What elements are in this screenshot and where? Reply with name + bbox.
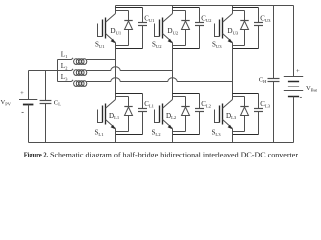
wire: leg 3 midpoint vertical (phase node) — [232, 43, 234, 100]
wire: inner bottom bar (diode anode) of S_L3 cell — [233, 131, 245, 133]
wire: leg 1 emitter drop to bottom rail — [115, 129, 117, 143]
svg-text:+: + — [296, 68, 300, 75]
inductor L1 — [58, 58, 87, 64]
capacitor C_L2 — [195, 94, 204, 135]
wire: outer bottom bar (emitter/cap) of S_L2 cell — [173, 134, 200, 136]
diode D_U1 — [124, 11, 132, 46]
transistor S_U3 (IGBT) — [215, 14, 233, 44]
transistor S_U1 (IGBT) — [98, 14, 116, 44]
capacitor C_L1 — [138, 94, 147, 135]
wire: outer bottom bar (emitter/cap) of S_U2 cell — [173, 48, 200, 50]
inductor L3 — [58, 80, 87, 86]
transistor S_L1 (IGBT) — [98, 100, 116, 130]
wire: L2 line to leg 2 midpoint, jumping leg 1 — [87, 67, 173, 71]
wire: inner bar (diode side) of S_U3 cell — [233, 10, 245, 12]
diode D_L1 — [124, 97, 132, 132]
transistor S_L2 (IGBT) — [155, 100, 173, 130]
diode D_L3 — [240, 97, 248, 132]
wire: outer bottom bar (emitter/cap) of S_L1 cell — [116, 134, 143, 136]
wire: L1 line to leg 1 midpoint — [87, 59, 116, 61]
top DC bus rail (positive) — [116, 5, 294, 7]
capacitor C_U1 — [138, 8, 147, 49]
svg-text:-: - — [21, 108, 24, 117]
wire: inner bar (diode side) of S_L3 cell — [233, 96, 245, 98]
wire: inner bar (diode side) of S_U1 cell — [116, 10, 129, 12]
diode D_L2 — [181, 97, 189, 132]
wire: inner bottom bar (diode anode) of S_U1 cell — [116, 45, 129, 47]
wire: V_PV node across to bus (start of L2 line) — [29, 70, 72, 72]
wire: inner bar (diode side) of S_L2 cell — [173, 96, 186, 98]
wire: outer bottom bar (emitter/cap) of S_U3 cell — [233, 48, 259, 50]
wire: outer bar (cap side) of S_L1 cell — [116, 93, 143, 95]
voltage source V_PV — [19, 71, 37, 143]
capacitor C_U3 — [254, 8, 263, 49]
wire: inner bottom bar (diode anode) of S_L2 cell — [173, 131, 186, 133]
wire: L3 line to leg 3 midpoint, jumping legs 1 and 2 — [87, 78, 233, 82]
bottom DC bus rail (negative) — [29, 142, 294, 144]
wire: outer bar (cap side) of S_L2 cell — [173, 93, 200, 95]
capacitor C_H — [268, 6, 280, 143]
wire: inner bottom bar (diode anode) of S_L1 cell — [116, 131, 129, 133]
svg-text:-: - — [299, 92, 302, 101]
transistor S_L3 (IGBT) — [215, 100, 233, 130]
wire: leg 2 collector drop from top rail — [172, 6, 174, 14]
wire: inner bar (diode side) of S_L1 cell — [116, 96, 129, 98]
capacitor C_L3 — [254, 94, 263, 135]
wire: leg 2 midpoint vertical (phase node) — [172, 43, 174, 100]
capacitor C_L — [40, 71, 52, 143]
wire: leg 3 collector drop from top rail — [232, 6, 234, 14]
wire: outer bar (cap side) of S_U2 cell — [173, 7, 200, 9]
svg-text:Figure 2.: Figure 2. — [24, 151, 49, 157]
wire: outer bottom bar (emitter/cap) of S_L3 cell — [233, 134, 259, 136]
wire: left bus vertical joining L1/L2/L3 branches — [57, 60, 59, 82]
wire: leg 3 emitter drop to bottom rail — [232, 129, 234, 143]
svg-text:Schematic diagram of half-brid: Schematic diagram of half-bridge bidirec… — [50, 151, 298, 157]
wire: outer bar (cap side) of S_L3 cell — [233, 93, 259, 95]
diode D_U2 — [181, 11, 189, 46]
wire: outer bar (cap side) of S_U3 cell — [233, 7, 259, 9]
capacitor C_U2 — [195, 8, 204, 49]
transistor S_U2 (IGBT) — [155, 14, 173, 44]
inductor L2 — [72, 69, 87, 75]
battery V_Bat — [284, 6, 303, 143]
wire: inner bar (diode side) of S_U2 cell — [173, 10, 186, 12]
wire: inner bottom bar (diode anode) of S_U3 cell — [233, 45, 245, 47]
wire: inner bottom bar (diode anode) of S_U2 cell — [173, 45, 186, 47]
wire: leg 2 emitter drop to bottom rail — [172, 129, 174, 143]
wire: leg 1 midpoint vertical (phase node) — [115, 43, 117, 100]
wire: outer bar (cap side) of S_U1 cell — [116, 7, 143, 9]
diode D_U3 — [240, 11, 248, 46]
wire: outer bottom bar (emitter/cap) of S_U1 cell — [116, 48, 143, 50]
svg-text:+: + — [20, 90, 24, 97]
wire: leg 1 collector drop from top rail — [115, 6, 117, 14]
